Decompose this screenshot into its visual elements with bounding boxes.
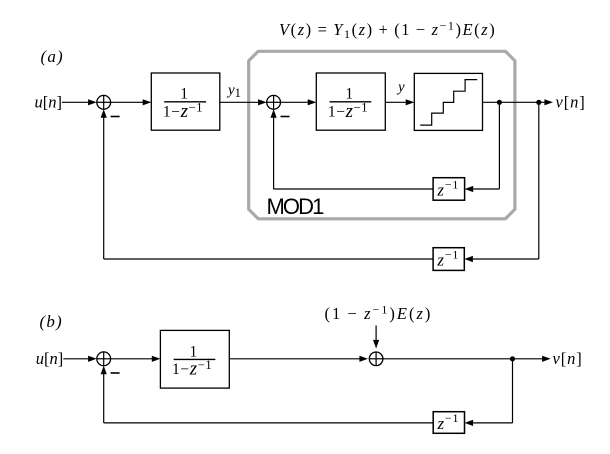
svg-text:v[n]: v[n]	[553, 349, 583, 368]
svg-text:V(z) = Y1(z) + (1 − z−1)E(z): V(z) = Y1(z) + (1 − z−1)E(z)	[279, 19, 496, 41]
svg-text:u[n]: u[n]	[35, 93, 63, 112]
svg-text:y: y	[396, 80, 405, 96]
svg-text:MOD1: MOD1	[267, 194, 325, 219]
svg-text:y1: y1	[226, 83, 241, 101]
svg-text:(1 − z−1)E(z): (1 − z−1)E(z)	[325, 303, 433, 324]
svg-text:v[n]: v[n]	[556, 93, 586, 112]
svg-text:(b): (b)	[40, 312, 63, 331]
svg-text:(a): (a)	[41, 47, 64, 66]
svg-text:u[n]: u[n]	[36, 349, 64, 368]
